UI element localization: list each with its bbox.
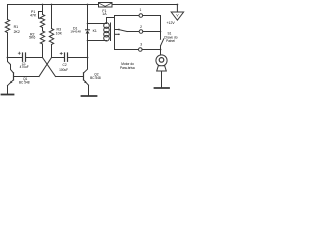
- svg-text:3: 3: [140, 42, 142, 46]
- transistor Q1: [8, 58, 14, 86]
- capacitor C2: [60, 52, 67, 61]
- motor M windshield wiper: [156, 55, 167, 71]
- svg-text:C2: C2: [63, 63, 67, 67]
- svg-text:2K2: 2K2: [14, 30, 20, 34]
- contact 2 circle: [139, 30, 143, 34]
- wire R2 bottom: [42, 44, 44, 58]
- wire left column lower: [7, 33, 9, 58]
- wire R3 bottom: [51, 45, 53, 58]
- diode D1: [86, 30, 90, 34]
- ground middle: [82, 95, 97, 97]
- wire top rail right of fuse: [112, 4, 177, 6]
- contact 3 circle: [139, 48, 143, 52]
- wire coil top stem: [107, 18, 115, 24]
- wire C2 right: [68, 57, 87, 59]
- relay armature lever: [120, 30, 128, 32]
- capacitor C1: [18, 52, 25, 61]
- wire P1 column top: [42, 5, 44, 15]
- relay core line: [110, 23, 112, 41]
- svg-text:5K6: 5K6: [29, 36, 35, 40]
- svg-text:Para-brisa: Para-brisa: [120, 66, 135, 70]
- node contact 2 S1 junction: [160, 31, 162, 33]
- wire coil bottom: [88, 40, 107, 42]
- svg-text:470uF: 470uF: [20, 65, 29, 69]
- power +12V: [171, 4, 183, 21]
- node D1 top rail: [87, 4, 89, 6]
- relay stub lower: [115, 33, 119, 35]
- node C2 right junction: [87, 57, 89, 59]
- wire cross diagonal left-top to right-bottom: [43, 58, 56, 77]
- wire Q2 emitter down: [88, 85, 90, 95]
- resistor R1: [5, 20, 9, 33]
- switch S1: [160, 39, 164, 46]
- wire P1 to R2: [42, 28, 44, 32]
- wire S1 to motor: [160, 46, 162, 55]
- wire Q2 base: [56, 76, 84, 78]
- wire Q1 emitter down: [7, 86, 9, 94]
- node P1 top: [42, 4, 44, 6]
- wire C2 left: [52, 57, 64, 59]
- node coil top junction: [87, 23, 89, 25]
- relay K1 coil: [104, 23, 110, 41]
- wire C1 right: [26, 57, 42, 59]
- transistor Q2: [84, 58, 89, 86]
- svg-text:1A: 1A: [102, 12, 107, 16]
- wire motor to ground: [161, 71, 163, 87]
- node coil bottom junction: [87, 40, 89, 42]
- wire C1 left: [8, 57, 22, 59]
- wire D1 column top: [87, 5, 89, 30]
- svg-text:Painel: Painel: [166, 39, 175, 43]
- svg-text:K1: K1: [93, 29, 97, 33]
- svg-text:10K: 10K: [56, 31, 63, 35]
- resistor R2: [40, 31, 44, 44]
- contact 1 circle: [139, 14, 143, 18]
- ground left: [2, 94, 14, 96]
- wire contact 2 right: [143, 31, 161, 33]
- wire contact 1 to S1: [143, 16, 161, 40]
- svg-text:BC 548: BC 548: [90, 76, 101, 80]
- fuse F1: [99, 3, 113, 8]
- svg-text:R1: R1: [14, 25, 19, 29]
- wire coil top from D1: [88, 23, 107, 25]
- svg-text:100uF: 100uF: [59, 68, 68, 72]
- resistor R3: [49, 29, 53, 45]
- node R3 top: [51, 4, 53, 6]
- wire relay tie vertical: [114, 16, 116, 50]
- wire cross diagonal right-top to left-bottom: [39, 58, 52, 77]
- wire contact 3 row: [115, 49, 139, 51]
- potentiometer P1: [39, 12, 45, 28]
- node S1 contact3 junction: [160, 49, 162, 51]
- svg-text:1N4148: 1N4148: [70, 29, 81, 33]
- svg-text:1: 1: [139, 8, 141, 12]
- wire contact 2 row: [127, 31, 139, 33]
- svg-text:47K: 47K: [30, 13, 37, 17]
- svg-text:2: 2: [140, 25, 142, 29]
- node Q1 collector junction: [7, 57, 9, 59]
- wire contact 3 right: [142, 49, 160, 51]
- wire top rail left of fuse: [8, 4, 99, 6]
- wire left column upper: [7, 5, 9, 20]
- svg-text:+12V: +12V: [166, 21, 175, 25]
- wire Q1 base: [14, 76, 40, 78]
- ground right: [155, 87, 170, 89]
- wire contact 1 row: [115, 15, 139, 17]
- relay stub upper: [115, 29, 119, 31]
- svg-text:BC 548: BC 548: [19, 80, 30, 84]
- wire D1 anode down: [87, 34, 89, 58]
- wire R3 column top: [51, 5, 53, 29]
